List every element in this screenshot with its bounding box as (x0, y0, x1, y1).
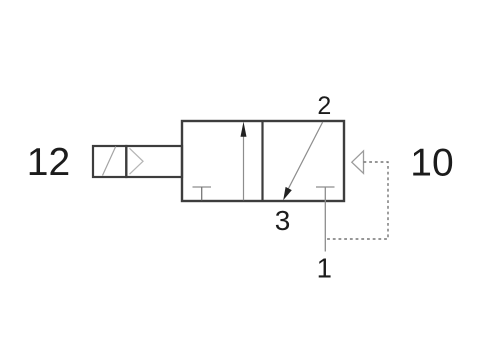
blocked port symbol left chamber stem (201, 187, 203, 200)
pneumatic pilot return triangle (right) (352, 151, 364, 174)
flow path 2 to 3 arrowhead at port 3 (283, 187, 292, 200)
flow arrow 1 to 2 shaft (left chamber) (243, 130, 245, 200)
svg-text:3: 3 (275, 205, 291, 236)
svg-text:10: 10 (410, 142, 453, 185)
svg-text:1: 1 (317, 253, 332, 284)
blocked port symbol port 1 crossbar (316, 186, 335, 188)
port 1 line (324, 187, 326, 252)
svg-text:12: 12 (27, 141, 70, 184)
blocked port symbol left chamber crossbar (193, 186, 212, 188)
solenoid box (93, 146, 126, 177)
solenoid diagonal stroke (103, 147, 116, 176)
flow arrow 1 to 2 head (241, 122, 247, 137)
valve chamber divider (261, 121, 263, 201)
dashed pilot signal line (325, 162, 388, 239)
pilot triangle inside connector box (130, 148, 144, 174)
svg-text:2: 2 (317, 92, 331, 120)
pilot connector box (126, 146, 182, 177)
valve body outer rectangle (182, 121, 344, 201)
flow path 2 to 3 shaft (right chamber) (288, 122, 322, 189)
